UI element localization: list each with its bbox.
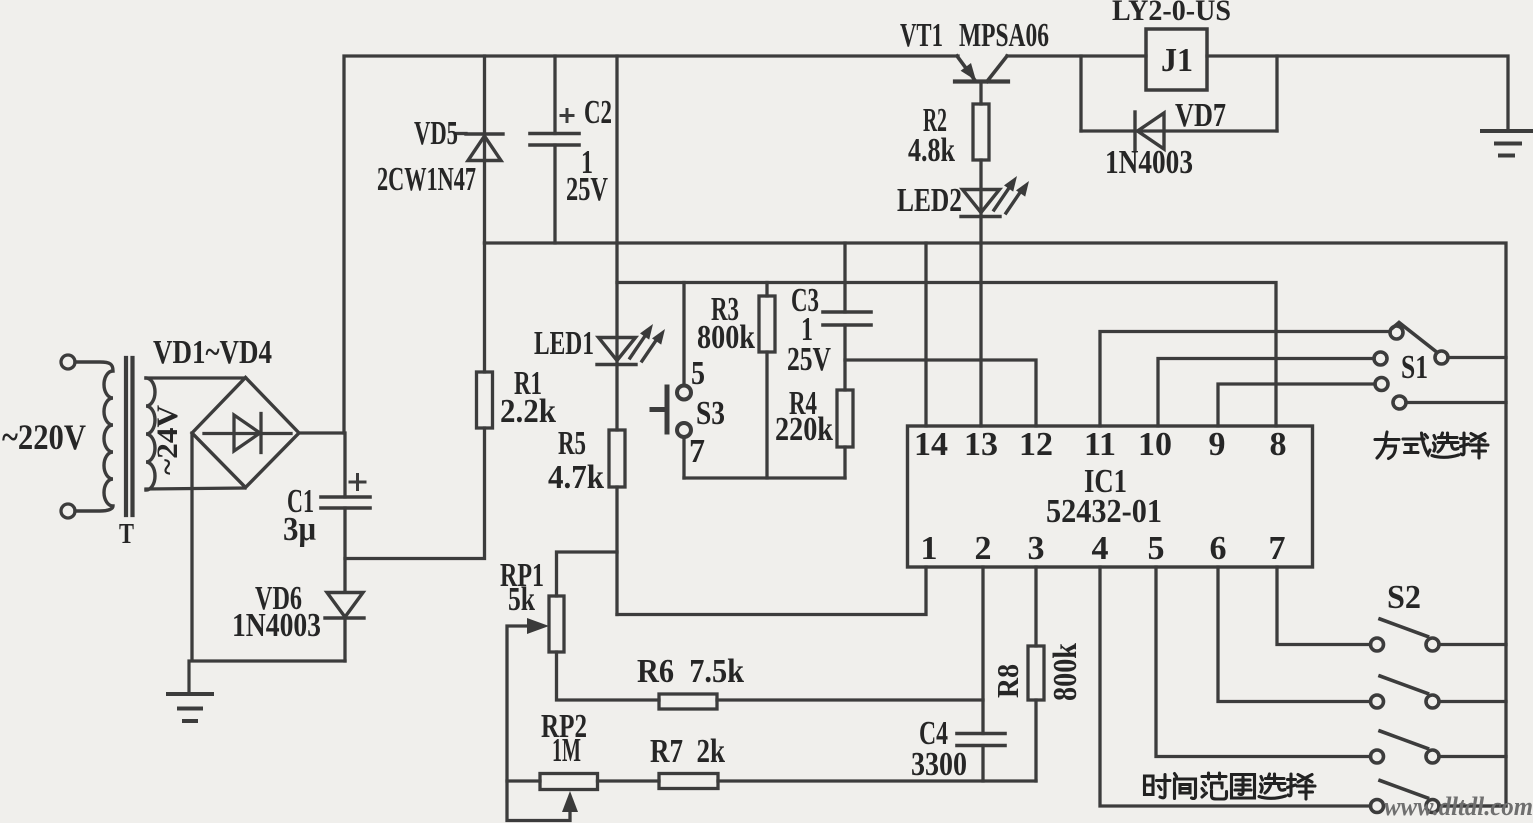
pushbutton S3 xyxy=(652,386,691,438)
wire C3 top lead xyxy=(843,243,846,312)
svg-text:800k: 800k xyxy=(1047,643,1084,701)
wire secondary bottom lead xyxy=(146,488,245,489)
resistor R5 xyxy=(609,430,625,487)
svg-text:4: 4 xyxy=(1092,530,1109,567)
svg-text:S2: S2 xyxy=(1387,579,1421,616)
pin numbers top row xyxy=(914,426,1287,463)
wire node to pin 12 xyxy=(845,360,1036,426)
svg-text:12: 12 xyxy=(1019,426,1053,463)
svg-text:VT1: VT1 xyxy=(900,17,943,54)
resistor R8 xyxy=(1028,646,1044,700)
wire top rail right segment xyxy=(1207,56,1508,131)
label fangshi xuanze (mode select) xyxy=(1375,432,1488,459)
LED LED1 xyxy=(597,324,665,365)
transformer T core xyxy=(126,358,133,515)
RP2 wiper arrow xyxy=(562,791,578,812)
wire S3 leads xyxy=(682,283,685,479)
svg-text:2CW1N47: 2CW1N47 xyxy=(377,161,476,198)
ground left xyxy=(168,661,212,721)
transformer T primary terminals xyxy=(61,355,75,369)
wire RP2 to R7 xyxy=(598,779,660,782)
C1 plus sign xyxy=(350,475,365,490)
label shijian fanwei xuanze (time range select) xyxy=(1145,773,1316,799)
wire pin 9 xyxy=(1218,384,1375,426)
wire pin 5 to S2 xyxy=(1156,567,1371,757)
wire top rail left segment xyxy=(344,56,958,433)
wire VD5 vertical xyxy=(483,56,486,243)
svg-text:3: 3 xyxy=(1028,530,1045,567)
svg-text:R5: R5 xyxy=(558,425,586,462)
svg-text:R6 7.5k: R6 7.5k xyxy=(637,653,744,690)
potentiometer RP2 xyxy=(540,774,598,790)
wire RP1 RP2 wiper bus xyxy=(507,626,570,821)
svg-text:T: T xyxy=(119,519,134,550)
wire C1 VD6 vertical xyxy=(343,433,346,661)
svg-text:1N4003: 1N4003 xyxy=(1105,144,1193,181)
svg-text:220k: 220k xyxy=(775,411,833,448)
wire relay J1 right branch xyxy=(1275,56,1278,131)
potentiometer RP1 xyxy=(549,596,564,652)
wire bridge left lead and bottom rail xyxy=(192,433,345,661)
svg-text:C2: C2 xyxy=(584,94,612,131)
diode VD6 xyxy=(325,593,364,619)
svg-text:VD5: VD5 xyxy=(414,115,458,152)
switch S2 row 1 xyxy=(1371,619,1440,651)
svg-text:9: 9 xyxy=(1209,426,1226,463)
wire VT1 base lead xyxy=(979,82,982,105)
wire S1 common to bus xyxy=(1448,356,1506,359)
svg-text:4.7k: 4.7k xyxy=(548,459,604,496)
svg-text:25V: 25V xyxy=(787,341,831,378)
switch S2 row 3 xyxy=(1371,731,1440,763)
VD5 label dash xyxy=(457,132,466,135)
resistor R7 xyxy=(659,774,718,789)
wire S2 right connections xyxy=(1439,645,1506,807)
resistor R2 xyxy=(973,104,989,160)
C2 plus sign xyxy=(561,110,573,122)
wire R3 leads xyxy=(765,283,768,479)
svg-text:LY2-0-US: LY2-0-US xyxy=(1112,0,1231,27)
selector switch S1 xyxy=(1374,323,1448,410)
svg-text:25V: 25V xyxy=(566,171,608,208)
wire R5 bottom vertical xyxy=(615,487,618,615)
svg-text:1: 1 xyxy=(921,530,938,567)
resistor R4 xyxy=(837,390,853,447)
svg-text:14: 14 xyxy=(914,426,948,463)
wire pin 7 to S2 xyxy=(1277,567,1371,645)
svg-text:S3: S3 xyxy=(696,395,725,432)
wire RP1 top link xyxy=(557,552,618,596)
diode VD5 zener xyxy=(466,134,503,161)
capacitor C4 xyxy=(957,734,1005,746)
relay J1 xyxy=(1146,29,1207,90)
wire C2 leads xyxy=(553,56,556,243)
svg-text:6: 6 xyxy=(1210,530,1227,567)
svg-text:5: 5 xyxy=(691,355,705,392)
svg-text:R8: R8 xyxy=(990,664,1025,698)
wire LED1 branch vertical upper xyxy=(615,56,618,430)
ground right xyxy=(1482,131,1533,156)
switch S2 row 4 xyxy=(1371,781,1440,813)
wire S1 contact5 to bus xyxy=(1406,401,1506,404)
svg-text:4.8k: 4.8k xyxy=(908,132,955,169)
wire R2 to LED2 to pin 13 xyxy=(979,160,982,426)
svg-text:800k: 800k xyxy=(697,319,755,356)
wire C3 bottom to R4 xyxy=(843,325,846,478)
wire pin 1 xyxy=(617,567,926,615)
wire pin 3 and R8 leads xyxy=(1034,567,1037,781)
RP1 wiper arrow xyxy=(527,618,549,634)
svg-text:www.dltdl.com: www.dltdl.com xyxy=(1384,792,1533,821)
transformer T primary coil xyxy=(75,362,113,511)
wire S3 R3 R4 bottom rail xyxy=(684,476,845,479)
svg-text:2.2k: 2.2k xyxy=(500,393,556,430)
svg-text:~220V: ~220V xyxy=(2,417,86,457)
wire pin 4 to S2 xyxy=(1100,567,1371,806)
wire pin 10 xyxy=(1158,359,1374,427)
wire bridge output to C1 xyxy=(299,431,344,434)
wire sub bus to pin 8 xyxy=(617,283,1276,427)
wire top rail middle segment xyxy=(1007,54,1146,57)
svg-text:J1: J1 xyxy=(1161,42,1193,79)
wire RP1 bottom to R6 xyxy=(557,652,660,700)
wire pin 2 and C4 xyxy=(981,567,984,781)
wire pin 14 xyxy=(924,243,927,426)
wire VD7 horizontal xyxy=(1081,129,1277,132)
diode VD7 xyxy=(1135,112,1164,150)
pin numbers bottom row xyxy=(921,530,1286,567)
svg-text:10: 10 xyxy=(1138,426,1172,463)
svg-text:1M: 1M xyxy=(552,732,581,769)
wire pin 11 xyxy=(1100,332,1390,427)
LED LED2 xyxy=(961,176,1029,217)
svg-text:13: 13 xyxy=(964,426,998,463)
svg-text:5k: 5k xyxy=(508,581,535,618)
wire RP2 left lead xyxy=(507,779,540,782)
svg-text:~24V: ~24V xyxy=(151,405,184,475)
switch S2 row 2 xyxy=(1371,676,1440,708)
resistor R3 xyxy=(759,296,775,352)
bridge rectifier VD1-VD4 xyxy=(192,378,299,488)
svg-text:7: 7 xyxy=(689,433,705,470)
svg-text:LED1: LED1 xyxy=(534,325,594,362)
resistor R1 xyxy=(477,372,493,428)
svg-text:3μ: 3μ xyxy=(283,511,316,548)
transistor VT1 xyxy=(955,56,1008,82)
resistor R6 xyxy=(659,694,717,709)
transformer T secondary coil xyxy=(146,378,155,490)
wire R6 to pin 2 xyxy=(717,698,983,701)
wire pin 6 to S2 xyxy=(1218,567,1371,702)
bridge inner diode xyxy=(204,414,291,453)
svg-text:5: 5 xyxy=(1148,530,1165,567)
svg-text:7: 7 xyxy=(1269,530,1286,567)
svg-text:VD7: VD7 xyxy=(1175,97,1226,134)
svg-text:1N4003: 1N4003 xyxy=(232,607,321,644)
svg-text:11: 11 xyxy=(1084,426,1116,463)
svg-text:2: 2 xyxy=(975,530,992,567)
svg-text:VD1~VD4: VD1~VD4 xyxy=(153,334,272,371)
wire relay J1 left branch xyxy=(1079,56,1082,131)
svg-text:S1: S1 xyxy=(1401,349,1428,386)
wire R1 vertical xyxy=(483,243,486,372)
capacitor C3 xyxy=(823,312,871,325)
svg-text:3300: 3300 xyxy=(911,746,967,783)
wire secondary top lead xyxy=(146,376,246,379)
svg-text:8: 8 xyxy=(1270,426,1287,463)
svg-text:MPSA06: MPSA06 xyxy=(959,17,1049,54)
svg-text:LED2: LED2 xyxy=(897,182,962,219)
wire main bus xyxy=(485,243,1507,806)
svg-text:52432-01: 52432-01 xyxy=(1046,493,1162,530)
wire R7 to R8 bottom xyxy=(718,779,1036,782)
wire R1 bottom to C1 node xyxy=(345,428,485,559)
capacitor C2 xyxy=(530,134,579,146)
svg-text:R7 2k: R7 2k xyxy=(650,733,725,770)
IC chip IC1 xyxy=(908,426,1313,567)
capacitor C1 xyxy=(321,497,370,508)
